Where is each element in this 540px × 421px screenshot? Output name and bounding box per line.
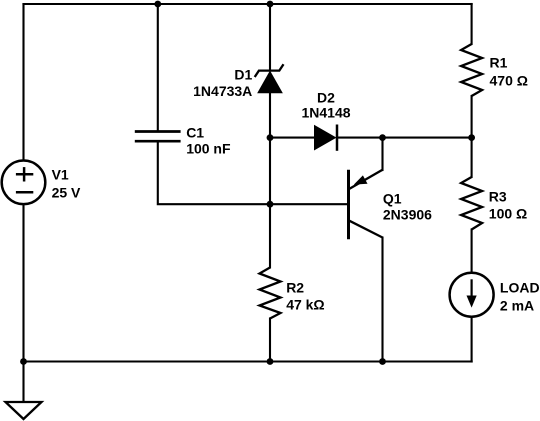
zener diode D1 <box>255 64 284 93</box>
svg-text:R2: R2 <box>286 279 304 295</box>
junction top rail / C1 <box>154 1 161 8</box>
node A (D1 anode / D2 anode) <box>267 134 274 141</box>
svg-text:2N3906: 2N3906 <box>383 206 432 222</box>
ground <box>6 402 42 419</box>
resistor R2 <box>260 268 281 319</box>
capacitor C1 <box>135 132 181 142</box>
wire node C to R3 top <box>471 138 473 177</box>
svg-text:1N4733A: 1N4733A <box>193 83 252 99</box>
wire D1 column upper (top rail to D1 cathode) <box>269 4 271 71</box>
svg-text:100 nF: 100 nF <box>186 141 231 157</box>
diode D2 <box>315 125 338 151</box>
svg-text:LOAD: LOAD <box>500 279 540 295</box>
wire node A to D2 anode <box>270 137 315 139</box>
svg-text:2 mA: 2 mA <box>500 297 534 313</box>
wire LOAD bottom to bottom rail <box>471 317 473 362</box>
svg-text:D2: D2 <box>317 89 335 105</box>
svg-text:D1: D1 <box>234 66 252 82</box>
wire left rail lower (V1 minus terminal to bottom rail) <box>22 204 24 361</box>
wire Q1 collector drop to bottom rail <box>381 238 383 362</box>
transistor Q1 <box>349 170 383 239</box>
wire C1 column upper (top rail to C1 top plate) <box>157 4 159 132</box>
wire D1 anode down through node A and node B to R2 top <box>269 93 271 268</box>
resistor R3 <box>461 177 482 230</box>
svg-text:470 Ω: 470 Ω <box>490 73 528 89</box>
junction top rail / D1 <box>267 1 274 8</box>
svg-text:V1: V1 <box>52 166 69 182</box>
wire ground stub <box>22 362 24 403</box>
svg-text:R1: R1 <box>490 54 508 70</box>
wire Q1 emitter riser <box>381 138 383 170</box>
node C (R1 / R3 / emitter feed) <box>468 134 475 141</box>
junction ground / bottom rail <box>20 358 27 365</box>
wire top rail <box>24 3 472 5</box>
current source LOAD <box>450 273 494 317</box>
svg-text:47 kΩ: 47 kΩ <box>286 296 324 312</box>
wire left rail upper (top rail to V1 plus terminal) <box>22 4 24 161</box>
wire bottom rail <box>24 360 472 362</box>
wire D2 cathode to right rail (through emitter node) <box>337 137 472 139</box>
svg-text:Q1: Q1 <box>383 190 402 206</box>
wire right rail top (top rail to R1) <box>471 4 473 44</box>
svg-text:25 V: 25 V <box>52 185 81 201</box>
svg-text:100 Ω: 100 Ω <box>489 205 527 221</box>
junction D2 cathode / Q1 emitter <box>379 134 386 141</box>
svg-text:C1: C1 <box>186 125 204 141</box>
voltage source V1 <box>2 161 46 205</box>
node B (C1 / base / R2) <box>267 201 274 208</box>
junction R2 / bottom rail <box>267 358 274 365</box>
svg-text:R3: R3 <box>489 188 507 204</box>
wire R3 bottom to LOAD top <box>471 230 473 273</box>
resistor R1 <box>461 44 482 96</box>
junction collector / bottom rail <box>379 358 386 365</box>
wire C1 bottom to base node (down then right to Q1 base) <box>158 141 349 204</box>
wire R2 bottom to bottom rail <box>269 319 271 362</box>
wire R1 bottom to node C <box>471 96 473 138</box>
svg-text:1N4148: 1N4148 <box>301 105 350 121</box>
